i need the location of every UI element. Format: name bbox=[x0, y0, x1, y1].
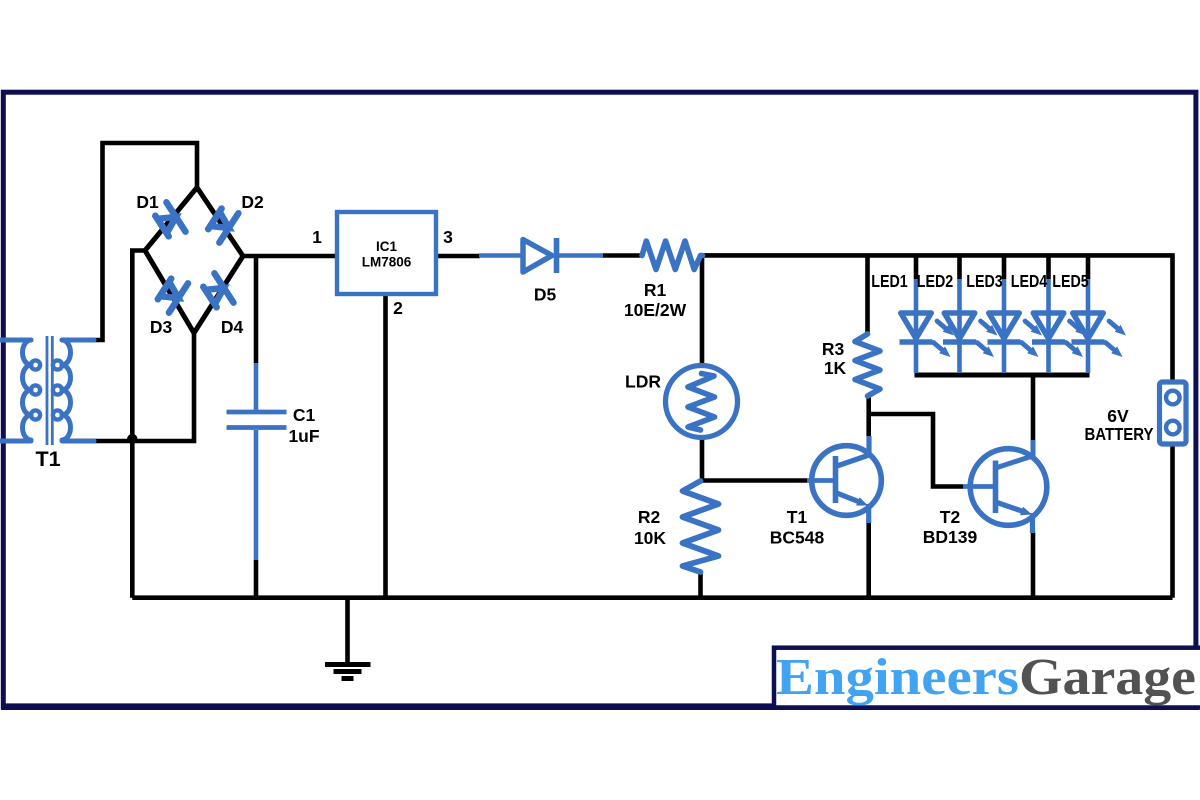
svg-text:10K: 10K bbox=[634, 528, 666, 548]
svg-text:LED4: LED4 bbox=[1011, 271, 1048, 291]
svg-text:D1: D1 bbox=[136, 192, 159, 212]
svg-text:1uF: 1uF bbox=[288, 426, 319, 446]
svg-text:10E/2W: 10E/2W bbox=[624, 300, 687, 320]
svg-text:LED5: LED5 bbox=[1052, 271, 1089, 291]
svg-text:LED1: LED1 bbox=[871, 271, 908, 291]
svg-text:D2: D2 bbox=[241, 192, 264, 212]
svg-text:D5: D5 bbox=[534, 285, 557, 305]
svg-text:LM7806: LM7806 bbox=[362, 255, 412, 270]
svg-text:C1: C1 bbox=[293, 405, 316, 425]
svg-text:LED3: LED3 bbox=[966, 271, 1003, 291]
svg-text:IC1: IC1 bbox=[376, 239, 398, 254]
svg-text:R3: R3 bbox=[822, 339, 845, 359]
svg-text:2: 2 bbox=[393, 298, 403, 318]
svg-text:1: 1 bbox=[312, 227, 322, 247]
svg-text:BC548: BC548 bbox=[770, 528, 825, 548]
svg-text:R2: R2 bbox=[638, 507, 661, 527]
svg-text:BATTERY: BATTERY bbox=[1085, 424, 1154, 444]
svg-text:T1: T1 bbox=[787, 507, 808, 527]
svg-text:LDR: LDR bbox=[625, 372, 661, 392]
svg-text:T1: T1 bbox=[35, 447, 60, 471]
svg-text:Engineers: Engineers bbox=[776, 649, 1019, 706]
svg-text:BD139: BD139 bbox=[923, 527, 978, 547]
svg-text:6V: 6V bbox=[1107, 406, 1129, 426]
svg-text:3: 3 bbox=[443, 227, 453, 247]
svg-text:D4: D4 bbox=[221, 317, 244, 337]
svg-text:LED2: LED2 bbox=[917, 271, 954, 291]
svg-text:Garage: Garage bbox=[1019, 649, 1196, 706]
svg-text:1K: 1K bbox=[824, 358, 847, 378]
svg-text:T2: T2 bbox=[940, 507, 961, 527]
svg-text:D3: D3 bbox=[150, 317, 173, 337]
svg-text:R1: R1 bbox=[644, 280, 667, 300]
